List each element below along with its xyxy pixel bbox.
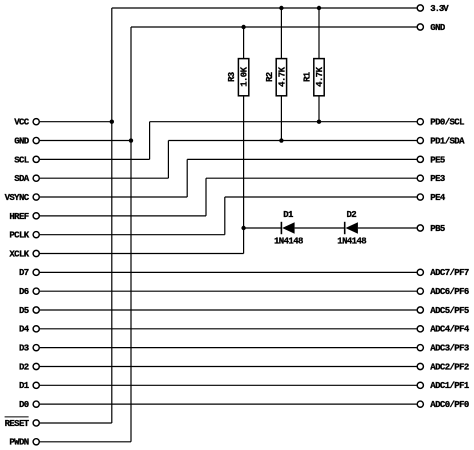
label VCC [14,118,30,128]
pin D1 [33,382,39,388]
wire RESET [40,422,112,424]
svg-text:D0: D0 [19,400,29,410]
svg-text:1.0K: 1.0K [240,66,250,86]
svg-text:3.3V: 3.3V [430,4,449,14]
pin ADC6/PF6 [417,288,423,294]
svg-text:GND: GND [14,136,30,146]
svg-text:ADC4/PF4: ADC4/PF4 [430,325,470,335]
svg-text:D1: D1 [19,381,30,391]
svg-text:RESET: RESET [5,419,30,429]
label HREF [9,212,28,222]
label XCLK [9,249,29,259]
resistor R3 1.0K [227,27,249,228]
wire XCLK [40,228,244,254]
wire GND vertical (to GND and PWDN) [130,27,132,442]
label GND (right top) [430,23,446,33]
label PE5 [430,155,445,165]
svg-text:D4: D4 [19,325,30,335]
svg-text:XCLK: XCLK [9,249,29,259]
wire SDA [40,141,417,179]
wire PCLK [40,197,417,235]
pin D2 [33,363,39,369]
wire D0 [40,403,417,405]
svg-text:GND: GND [430,23,446,33]
svg-text:ADC6/PF6: ADC6/PF6 [430,287,469,297]
svg-text:1N4148: 1N4148 [274,236,303,246]
junction VCC/3.3V [110,120,114,124]
pin SCL [33,156,39,162]
pin HREF [33,213,39,219]
pin D6 [33,288,39,294]
label ADC6/PF6 [430,287,469,297]
svg-text:PB5: PB5 [430,224,445,234]
pin ADC7/PF7 [417,269,423,275]
label GND [14,136,30,146]
pin PWDN [33,439,39,445]
pin ADC0/PF0 [417,401,423,407]
svg-text:PWDN: PWDN [9,438,28,448]
label D0 [19,400,29,410]
svg-text:D1: D1 [283,210,294,220]
wire GND [40,140,131,142]
junction R3 top on GND rail [241,25,245,29]
svg-text:ADC2/PF2: ADC2/PF2 [430,362,469,372]
pin ADC3/PF3 [417,345,423,351]
wire 3.3V vertical (to VCC and RESET) [111,8,113,423]
svg-text:4.7K: 4.7K [277,66,287,86]
svg-text:4.7K: 4.7K [315,66,325,86]
wire D2 [40,365,417,367]
wire VSYNC [40,159,417,197]
svg-text:SDA: SDA [14,174,30,184]
junction R1 bottom on PD0/SCL [317,120,321,124]
pin GND (right top) [417,24,423,30]
label ADC0/PF0 [430,400,469,410]
svg-text:VCC: VCC [14,118,30,128]
pin D4 [33,326,39,332]
svg-text:PE4: PE4 [430,193,446,203]
label D1 [19,381,30,391]
svg-text:ADC3/PF3: ADC3/PF3 [430,344,469,354]
junction R2 bottom on PD1/SDA [279,138,283,142]
node XCLK/R3/D1 junction [241,226,245,230]
label D5 [19,306,29,316]
pin ADC4/PF4 [417,326,423,332]
resistor R2 4.7K [265,8,287,141]
wire GND rail [131,26,417,28]
wire D3 [40,347,417,349]
junction GND/GND [129,138,133,142]
wire D1 [40,384,417,386]
pin XCLK [33,250,39,256]
label SDA [14,174,30,184]
label 3.3V [430,4,449,14]
svg-text:D2: D2 [346,210,356,220]
pin PD1/SDA [417,137,423,143]
pin D5 [33,307,39,313]
pin PB5 [417,225,423,231]
pin PE3 [417,175,423,181]
svg-text:D6: D6 [19,287,29,297]
label D2 [19,362,29,372]
label ADC1/PF1 [430,381,470,391]
wire D6 [40,290,417,292]
svg-text:ADC1/PF1: ADC1/PF1 [430,381,470,391]
label SCL [14,155,29,165]
label ADC3/PF3 [430,344,469,354]
wire D5 [40,309,417,311]
junction R2 top on 3.3V rail [279,6,283,10]
wire XCLK node to D1 [244,227,282,229]
svg-text:PCLK: PCLK [9,231,29,241]
pin D3 [33,345,39,351]
pin VSYNC [33,194,39,200]
label D4 [19,325,30,335]
svg-text:D5: D5 [19,306,29,316]
label PD0/SCL [430,118,464,128]
wire D7 [40,271,417,273]
svg-text:ADC0/PF0: ADC0/PF0 [430,400,469,410]
wire SCL [40,122,417,160]
label ADC2/PF2 [430,362,469,372]
pin GND [33,137,39,143]
svg-text:ADC5/PF5: ADC5/PF5 [430,306,469,316]
wire VCC [40,121,112,123]
label PD1/SDA [430,136,465,146]
label VSYNC [5,193,30,203]
svg-text:PD1/SDA: PD1/SDA [430,136,465,146]
pin RESET [33,420,39,426]
pin PE4 [417,194,423,200]
wire D1 to D2 [295,227,345,229]
wire D4 [40,328,417,330]
label D3 [19,344,29,354]
pin D7 [33,269,39,275]
label D7 [19,268,29,278]
svg-text:D3: D3 [19,344,29,354]
label PB5 [430,224,445,234]
label PCLK [9,231,29,241]
wire PWDN [40,441,131,443]
label D6 [19,287,29,297]
pin ADC5/PF5 [417,307,423,313]
svg-text:VSYNC: VSYNC [5,193,30,203]
pin D0 [33,401,39,407]
diode D1 1N4148 [274,210,303,246]
pin VCC [33,119,39,125]
label ADC7/PF7 [430,268,469,278]
svg-text:D2: D2 [19,362,29,372]
svg-text:R1: R1 [303,71,313,82]
pin ADC2/PF2 [417,363,423,369]
label RESET [5,417,30,429]
resistor R1 4.7K [303,8,325,122]
label ADC4/PF4 [430,325,470,335]
wire D2 to PB5 [358,227,417,229]
svg-text:R3: R3 [227,72,237,82]
pin ADC1/PF1 [417,382,423,388]
pin PE5 [417,156,423,162]
svg-text:D7: D7 [19,268,29,278]
svg-text:PE3: PE3 [430,174,445,184]
label PWDN [9,438,28,448]
wire 3.3V rail [112,7,417,9]
label PE3 [430,174,445,184]
pin 3.3V [417,5,423,11]
label ADC5/PF5 [430,306,469,316]
svg-text:1N4148: 1N4148 [337,236,366,246]
pin SDA [33,175,39,181]
svg-text:PD0/SCL: PD0/SCL [430,118,464,128]
svg-text:R2: R2 [265,72,275,82]
svg-text:PE5: PE5 [430,155,445,165]
junction R1 top on 3.3V rail [317,6,321,10]
svg-text:HREF: HREF [9,212,28,222]
label PE4 [430,193,446,203]
wire HREF [40,178,417,216]
pin PCLK [33,232,39,238]
diode D2 1N4148 [337,210,366,246]
pin PD0/SCL [417,119,423,125]
svg-text:SCL: SCL [14,155,29,165]
svg-text:ADC7/PF7: ADC7/PF7 [430,268,469,278]
